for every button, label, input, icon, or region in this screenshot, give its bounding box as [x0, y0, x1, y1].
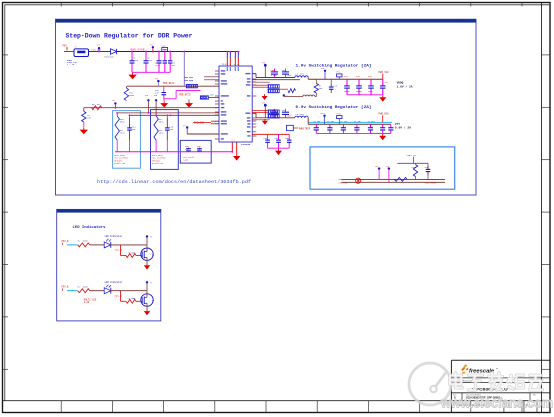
wire rail drop to IC pin V1 [226, 51, 228, 66]
watermark glyph shao [508, 375, 524, 389]
svg-text:22uF: 22uF [155, 64, 161, 67]
label PWR_5V0 on wire [92, 49, 102, 52]
node PWR_EN1 net label [184, 76, 219, 79]
jumper J2 on VTT rail [336, 113, 342, 124]
label text in box2 [152, 154, 166, 165]
label PWR1TRIP [299, 128, 311, 131]
datasheet url [97, 179, 251, 185]
testpoint TP6 [321, 67, 327, 79]
svg-text:C4: C4 [368, 121, 370, 123]
capacitor C32 [271, 109, 291, 118]
junction dots on input rail [131, 51, 185, 53]
watermark glyph zi [469, 375, 483, 390]
resistor R31 [124, 86, 135, 100]
section label 0.9V [296, 105, 372, 110]
capacitor C05 in box3 [185, 145, 191, 152]
svg-text:LED Indicator: LED Indicator [105, 235, 124, 238]
freescale logo chevron [461, 364, 468, 374]
svg-text:www.elecfans.com: www.elecfans.com [440, 395, 553, 411]
section label 1.0V [296, 64, 372, 69]
sheet inner border line left [4, 5, 6, 401]
svg-text:P5V_B: P5V_B [62, 240, 70, 243]
LED box top bar [57, 209, 161, 212]
board title text [472, 387, 509, 391]
ground for VTT caps [379, 134, 386, 140]
title block line 3 [451, 392, 550, 394]
jumper J1 on rail [336, 72, 342, 80]
svg-text:232K: 232K [120, 132, 126, 135]
resistor R6 pulldown [82, 108, 92, 128]
inductor L1 [295, 73, 309, 78]
freescale logo text [469, 368, 499, 375]
label VDDQ output [397, 81, 413, 88]
svg-text:POR_NTC3: POR_NTC3 [179, 94, 191, 97]
svg-text:10u: 10u [331, 121, 334, 123]
wire VTT sense line (cyan) [308, 121, 392, 123]
sheet inner border line top [5, 4, 550, 6]
wire box1 bottom leads [117, 140, 129, 152]
svg-text:P5V_B: P5V_B [62, 286, 70, 289]
testpoint TP8 [145, 94, 150, 101]
wire input rail segment 2 [89, 51, 111, 53]
node PWR_1V0 label [379, 71, 390, 79]
wire magenta jog C12 [164, 90, 176, 98]
op-amp regulator IC U1 LTC3634 [216, 64, 255, 143]
capacitor C23 [329, 79, 338, 93]
label VTT output [395, 123, 411, 130]
VTT cap labels [314, 121, 375, 123]
svg-text:Q2: Q2 [152, 299, 154, 302]
svg-text:196K: 196K [129, 94, 135, 97]
resistor R7 on rail [314, 79, 323, 93]
wire stub to IC PGOOD1 [211, 120, 219, 122]
option box 3 (blue small) [180, 140, 211, 163]
connector glyph circled-X [356, 178, 361, 183]
svg-text:PWR_EN2: PWR_EN2 [184, 79, 194, 82]
main schematic box border [56, 19, 477, 195]
svg-text:P5V: P5V [63, 44, 68, 47]
label DSS_GND with strike [193, 121, 211, 124]
svg-text:C4: C4 [354, 121, 356, 123]
svg-text:0.9v Switching Regulator [2A]: 0.9v Switching Regulator [2A] [296, 105, 372, 110]
svg-text:C4: C4 [314, 121, 316, 123]
label POR_NFC2 [163, 82, 175, 85]
wire inductor to rail [307, 78, 309, 80]
ground for input capacitor bank [128, 73, 136, 79]
ground VTTR caps [275, 149, 282, 155]
ground below C12 [160, 99, 168, 108]
termination option box [310, 147, 455, 189]
ground for VDDQ caps [379, 95, 386, 101]
wire SW1 from IC [252, 74, 295, 78]
svg-text:VTT: VTT [395, 123, 400, 126]
svg-text:22uF: 22uF [133, 59, 139, 62]
title block bottom row [453, 401, 529, 407]
wire feedback loop [284, 93, 317, 97]
option box 2 (blue) [151, 110, 179, 170]
capacitor C34 [275, 134, 281, 148]
capacitor C06 in box3 [197, 145, 202, 152]
wire capacitor-bank ground bus [132, 71, 170, 73]
wire net TV8 to IC [129, 114, 219, 118]
main schematic box top bar [56, 19, 477, 22]
watermark glyph dian [450, 373, 462, 388]
svg-text:PWB_1D: PWB_1D [115, 249, 123, 252]
wire TP risers into box2 [148, 102, 158, 117]
inductor L4 termination [395, 177, 408, 181]
resistor R40 in term box [412, 163, 418, 179]
resistor R22 in box2 [154, 116, 164, 140]
capacitor C7 [130, 52, 139, 73]
capacitor C10 bulk [162, 45, 168, 52]
capacitor C26 output [368, 75, 374, 95]
svg-text:1.0V / 2A: 1.0V / 2A [397, 84, 413, 88]
testpoint TP9 [154, 94, 158, 101]
LED box title [73, 225, 107, 230]
wire VTT output rail [308, 123, 391, 125]
svg-text:5 6: 5 6 [232, 139, 235, 141]
title block line 1 [451, 377, 550, 379]
svg-text:PWR_0V9: PWR_0V9 [339, 182, 348, 185]
ground below RN2 [185, 99, 193, 107]
label Title [453, 384, 456, 387]
node PWR_0V9 label [379, 113, 390, 123]
wire stub to IC PGOOD2 [211, 123, 219, 125]
wire rail drop to IC pin V3 [234, 51, 236, 66]
svg-text:10uF: 10uF [287, 114, 292, 117]
testpoint TP12 [283, 94, 288, 97]
ground below R6 [80, 128, 88, 134]
watermark glyph fa [489, 373, 503, 390]
inductor L3 [295, 113, 309, 118]
title block column separators lower [504, 401, 537, 413]
capacitor C8 [144, 52, 153, 73]
hatched feedback resistor RN5 [268, 110, 280, 114]
svg-text:PMEG2005: PMEG2005 [104, 56, 114, 59]
svg-text:357K: 357K [120, 121, 126, 124]
component MULT TRIP U2 [287, 125, 299, 130]
wire rail drop to IC pin V4 [237, 51, 239, 66]
svg-text:1.0v Switching Regulator [2A]: 1.0v Switching Regulator [2A] [296, 64, 372, 69]
testpoint TP3 [155, 77, 160, 86]
wire RUN net to IC [127, 85, 219, 87]
svg-text:C007: C007 [271, 69, 277, 72]
IC pin number marks [215, 71, 256, 140]
wire IC bottom leads [231, 139, 236, 154]
svg-text:caps: caps [183, 159, 189, 162]
testpoint TP4 [112, 99, 117, 109]
svg-text:TP14: TP14 [320, 112, 326, 115]
svg-text:C4: C4 [327, 121, 329, 123]
hatched feedback resistor RN4 [268, 89, 280, 93]
sheet inner border line bottom (zone band) [3, 400, 551, 402]
svg-text:C4: C4 [341, 121, 343, 123]
wire inductor to VTT rail [307, 118, 309, 125]
capacitor C22 [271, 69, 291, 78]
svg-text:100uF: 100uF [356, 90, 362, 93]
wire input rail segment 1 [64, 51, 74, 53]
wire rail drop to IC pin V2 [229, 51, 231, 66]
svg-text:Step-Down Regulator for DDR Po: Step-Down Regulator for DDR Power [66, 33, 193, 40]
wire net TV2 to IC [116, 112, 219, 116]
hatched feedback resistor RN3 [268, 85, 280, 89]
capacitor C27 output [380, 79, 389, 95]
svg-text:0.9V/1.0V: 0.9V/1.0V [114, 162, 126, 165]
capacitor bank VTT [314, 124, 394, 133]
svg-text:2.2K: 2.2K [84, 301, 90, 304]
inductor L2 feedback [303, 95, 315, 97]
title block column separators upper [462, 393, 530, 401]
label text in box1 [114, 154, 128, 165]
svg-text:POR_NFC2: POR_NFC2 [163, 82, 175, 85]
capacitor C15 in box2 [165, 118, 174, 140]
fuse F1 [74, 46, 89, 57]
testpoint TP7 [183, 124, 189, 134]
capacitor C11 [163, 52, 176, 73]
svg-text:VDDQ: VDDQ [397, 81, 404, 84]
ground below feedback RN2 [262, 119, 268, 125]
capacitor C9 [155, 52, 161, 73]
svg-text:LED Indicators: LED Indicators [73, 225, 107, 230]
svg-text:R2: R2 [78, 286, 80, 289]
label text in box3 [183, 156, 195, 162]
capacitor C12 [155, 86, 166, 99]
wire input rail segment 4 (blue) [117, 51, 240, 53]
testpoint TP10 [262, 61, 267, 77]
title block outline [451, 360, 550, 412]
LED indicator circuit 2 [62, 281, 155, 315]
node PWB1_LD label [407, 154, 417, 163]
svg-text:TP11: TP11 [336, 72, 340, 74]
svg-text:LTC3634: LTC3634 [241, 143, 251, 146]
testpoint TP14 [320, 112, 326, 124]
capacitor C31 boost [271, 109, 279, 118]
testpoint TP2 above rail [150, 44, 155, 52]
svg-text:PWB_1D: PWB_1D [115, 294, 123, 297]
svg-text:PWB1_LD: PWB1_LD [407, 154, 417, 157]
resistor R5 [92, 103, 102, 110]
testpoint TP17 [386, 166, 390, 182]
hatched feedback resistor RN6 [268, 114, 280, 118]
svg-text:L1 1uH: L1 1uH [296, 73, 305, 76]
svg-text:100uF: 100uF [344, 90, 350, 93]
wire riser to RUN wire [183, 52, 185, 87]
wire TRACKSS net [187, 133, 219, 135]
company text [454, 379, 481, 382]
capacitor C35 [285, 134, 291, 148]
svg-text:0.1uF: 0.1uF [271, 74, 277, 77]
wire box2 bottom leads [156, 140, 167, 152]
svg-text:PWR1TRIP: PWR1TRIP [299, 128, 311, 131]
node P5V net label [63, 44, 68, 50]
node PWR_0V9 arrow label [339, 182, 348, 185]
IC top pin numbers [223, 64, 239, 66]
testpoint TP16 [375, 166, 380, 179]
svg-text:10u: 10u [317, 121, 320, 123]
label POR_NTC3 [179, 94, 191, 97]
wire output cap ground bus [347, 94, 383, 96]
wire ground bus under boxes [115, 151, 232, 153]
wire VTTR ground bus [268, 147, 290, 149]
svg-text:LED Indicator: LED Indicator [105, 281, 124, 284]
wire VDDQ output rail [308, 78, 383, 80]
watermark glyph you [530, 375, 542, 390]
label MULTI LED note [84, 298, 97, 304]
document number text [454, 395, 501, 399]
sheet inner border line right (zone band) [541, 3, 543, 413]
label MAX POWER right [425, 178, 437, 184]
node PWR_EN2 net label [184, 79, 219, 82]
svg-text:TP15: TP15 [336, 113, 340, 115]
capacitor C25 output [356, 75, 362, 95]
svg-text:10u: 10u [344, 121, 347, 123]
svg-text:L3 1uH: L3 1uH [296, 113, 305, 116]
svg-text:MAX_POWER: MAX_POWER [425, 182, 437, 185]
ground under IC [233, 154, 241, 160]
node PWR_1V0 arrow label [339, 178, 348, 181]
svg-text:http://cds.linear.com/docs/en/: http://cds.linear.com/docs/en/datasheet/… [97, 179, 251, 185]
svg-text:PWR_1V0: PWR_1V0 [379, 71, 390, 74]
svg-text:DSS_GND: DSS_GND [194, 121, 205, 124]
label PWR_5V0B [131, 48, 146, 51]
capacitor C21 boost [271, 69, 279, 78]
watermark emblem circle [409, 363, 451, 405]
option box 1 (light blue) [113, 111, 141, 169]
svg-text:10u: 10u [371, 121, 374, 123]
watermark url text [440, 395, 553, 411]
ground below feedback RN [262, 94, 268, 100]
svg-text:V1 V2: V1 V2 [222, 64, 227, 66]
svg-text:10uF: 10uF [287, 74, 292, 77]
LED box border [57, 209, 161, 321]
resistor R20 in box1 [115, 116, 125, 140]
wire POR_NTC3 into IC [176, 90, 219, 97]
wire box2 component top leads [166, 114, 168, 118]
label Size [453, 393, 536, 396]
capacitor C40 in term box [425, 163, 431, 179]
svg-text:TP2: TP2 [386, 166, 389, 168]
label LTC3634 [241, 143, 251, 146]
svg-text:232K: 232K [159, 132, 165, 135]
testpoint TP1 [97, 43, 101, 52]
resistor R8 feedback zigzag [288, 89, 296, 93]
wire termination net PWR_1V0 [341, 178, 445, 180]
wire purple tie in term box [397, 162, 428, 164]
wire VTTR caps row [252, 133, 289, 135]
hatched resistor network RN2 [200, 94, 214, 100]
schematic title text [66, 33, 193, 40]
svg-text:PWR_0V9: PWR_0V9 [379, 113, 390, 116]
svg-text:10u: 10u [358, 121, 361, 123]
svg-text:357K: 357K [159, 121, 165, 124]
svg-text:0.9V/1.0V: 0.9V/1.0V [152, 162, 164, 165]
capacitor C24 output [344, 75, 350, 95]
testpoint TP13 [262, 101, 267, 117]
svg-text:22uF: 22uF [368, 90, 373, 93]
svg-text:0.9V / 2A: 0.9V / 2A [395, 126, 411, 130]
wire termination net PWR_0V9 [341, 181, 445, 183]
title block line 2 [451, 382, 550, 384]
wire MODE/SYNC net [84, 107, 219, 109]
svg-text:TP2: TP2 [375, 166, 378, 168]
hatched resistor network RN1 [186, 84, 198, 88]
svg-text:PWR_5V0: PWR_5V0 [92, 49, 102, 52]
wire IC right pins to feedback 2 [252, 111, 270, 120]
node PWR input note label [67, 59, 77, 66]
svg-text:1 - 2A: 1 - 2A [67, 63, 75, 66]
capacitor C14 in box1 [127, 118, 136, 140]
LED indicator circuit 1 [62, 235, 156, 269]
wire VTT cap ground bus [316, 132, 391, 134]
wire IC right pins to feedback [252, 80, 300, 90]
wire SW2 from IC [252, 113, 295, 118]
capacitor C33 [264, 134, 270, 148]
svg-text:22uF: 22uF [147, 59, 153, 62]
diode D1 [104, 49, 117, 59]
